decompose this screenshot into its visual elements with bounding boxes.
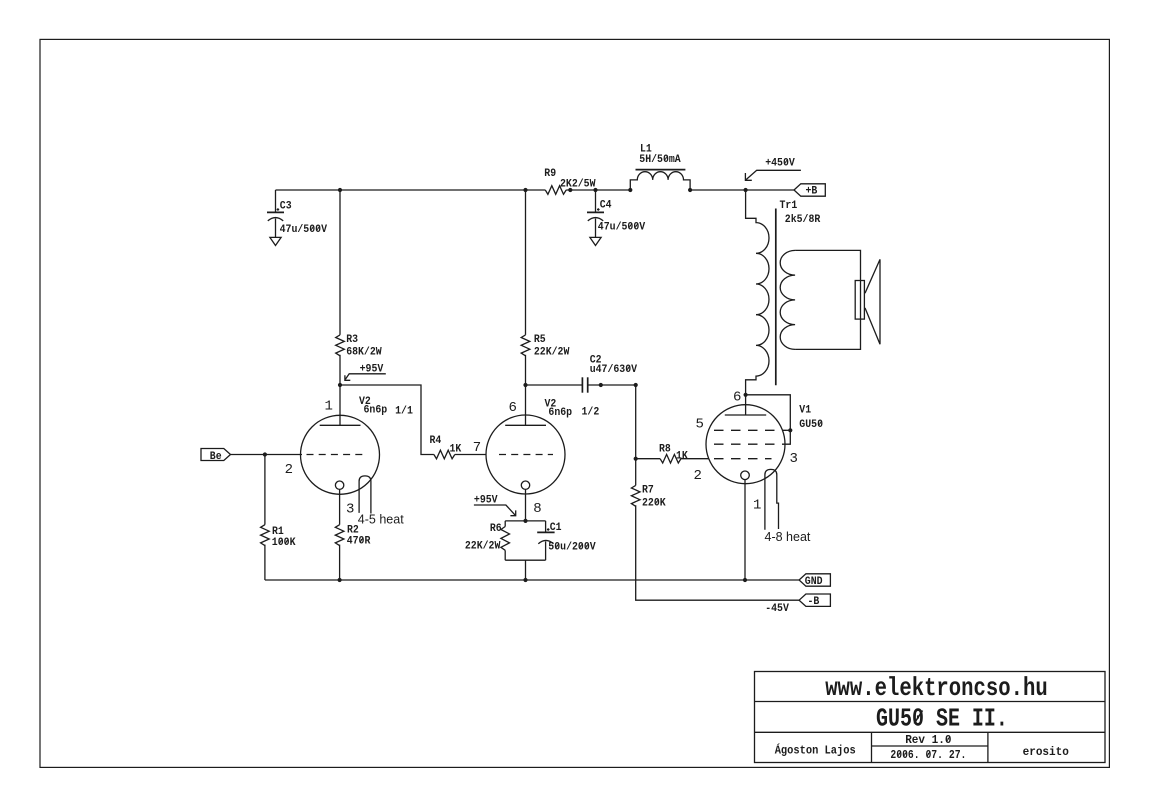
svg-text:V1: V1 xyxy=(799,405,811,417)
svg-text:R5: R5 xyxy=(534,334,546,346)
node Be/R1 xyxy=(263,452,267,456)
resistor R9 xyxy=(545,186,566,195)
svg-text:1: 1 xyxy=(753,498,761,514)
svg-text:Rev 1.0: Rev 1.0 xyxy=(905,733,951,747)
svg-text:R6: R6 xyxy=(490,523,502,535)
V2a anode lead xyxy=(339,385,341,425)
svg-text:50u/200V: 50u/200V xyxy=(548,542,596,554)
svg-text:R3: R3 xyxy=(346,334,358,346)
node L1 left xyxy=(628,188,632,192)
node pin8 / R6C1 top xyxy=(523,519,527,523)
tube V2a triode 6n6p 1/1 xyxy=(301,415,380,494)
wire R8 to V1 grid xyxy=(681,458,709,460)
wire ground rail xyxy=(265,579,799,581)
svg-text:2: 2 xyxy=(694,468,702,484)
svg-text:7: 7 xyxy=(473,440,481,456)
wire down to R8 node xyxy=(635,385,637,485)
node C2 output xyxy=(599,383,603,387)
V2b cathode lead xyxy=(525,489,527,521)
svg-text:GND: GND xyxy=(805,576,823,588)
svg-text:22K/2W: 22K/2W xyxy=(465,540,501,552)
node L1 right xyxy=(688,188,692,192)
resistor R8 xyxy=(660,454,681,463)
wire R6C1 to ground rail xyxy=(525,560,527,580)
resistor R7 xyxy=(631,485,640,506)
svg-text:1K: 1K xyxy=(450,444,462,456)
port Be xyxy=(201,449,231,461)
V1 plate xyxy=(725,414,766,416)
svg-text:2: 2 xyxy=(285,462,293,478)
wire C2 to R7/R8 branch xyxy=(588,384,636,386)
title block frame xyxy=(755,672,1106,763)
wire R8 node to zigzag xyxy=(636,458,660,460)
svg-text:C4: C4 xyxy=(600,199,612,211)
wire L1 to +B node xyxy=(690,189,794,191)
node R6C1/GND xyxy=(523,578,527,582)
svg-text:470R: 470R xyxy=(347,536,371,548)
node V1 cathode/GND xyxy=(743,578,747,582)
svg-text:GU50 SE II.: GU50 SE II. xyxy=(876,704,1008,734)
V1 cathode lead xyxy=(744,480,746,580)
V1 cathode xyxy=(741,471,750,480)
resistor R5 xyxy=(521,335,530,356)
svg-text:R7: R7 xyxy=(642,484,654,496)
node C4 tap xyxy=(593,188,597,192)
node R8 tap xyxy=(634,457,638,461)
node g2 tap xyxy=(788,428,792,432)
wire R2 to ground rail xyxy=(339,545,341,580)
svg-text:+450V: +450V xyxy=(765,157,795,169)
svg-text:68K/2W: 68K/2W xyxy=(346,347,382,359)
wire R1 to ground rail xyxy=(264,545,266,580)
svg-text:-45V: -45V xyxy=(765,603,789,615)
wire Be to grid xyxy=(231,454,303,456)
port -B xyxy=(799,594,830,606)
svg-text:6n6p: 6n6p xyxy=(548,407,572,419)
svg-text:22K/2W: 22K/2W xyxy=(534,347,570,359)
svg-text:R4: R4 xyxy=(430,435,442,447)
node corner C2/R7 xyxy=(634,383,638,387)
V1 anode lead xyxy=(745,395,747,415)
svg-text:C1: C1 xyxy=(550,522,562,534)
wire anode node to R4 corner xyxy=(340,385,434,455)
svg-text:6n6p: 6n6p xyxy=(364,404,388,416)
svg-text:3: 3 xyxy=(790,451,798,467)
V2a cathode xyxy=(335,481,343,489)
svg-text:5H/50mA: 5H/50mA xyxy=(639,154,681,166)
resistor R2 xyxy=(335,525,344,546)
svg-text:4-5 heat: 4-5 heat xyxy=(358,513,404,527)
svg-text:+B: +B xyxy=(806,186,818,198)
capacitor C1 xyxy=(545,521,547,532)
wire R3 to plate node xyxy=(339,355,341,385)
svg-text:47u/500V: 47u/500V xyxy=(280,224,328,236)
V2a heater 4-5 xyxy=(359,476,371,514)
wire R5 to anode node xyxy=(525,355,527,385)
node V2b anode rail tap xyxy=(523,188,527,192)
capacitor C3 xyxy=(275,190,277,212)
wire R4 to V2b grid xyxy=(455,454,486,456)
resistor R1 xyxy=(261,525,270,546)
svg-text:C3: C3 xyxy=(280,200,292,212)
wire g2 stub xyxy=(786,429,790,431)
node V2a anode xyxy=(338,383,342,387)
svg-text:Ágoston Lajos: Ágoston Lajos xyxy=(775,743,856,758)
svg-text:4-8 heat: 4-8 heat xyxy=(765,530,811,544)
svg-text:erosito: erosito xyxy=(1023,745,1069,759)
wire rail to R3 xyxy=(339,190,341,335)
svg-text:220K: 220K xyxy=(642,497,666,509)
tube V2b triode 6n6p 1/2 xyxy=(486,415,565,494)
wire top HT rail left xyxy=(276,189,546,191)
capacitor C2 xyxy=(581,377,583,392)
V2a grid (dashed) xyxy=(307,454,368,456)
transformer Tr1 core xyxy=(775,209,777,386)
wire R7 to -B line xyxy=(636,505,799,600)
ground C3 xyxy=(270,237,281,245)
port GND xyxy=(799,574,830,586)
resistor R3 xyxy=(336,335,345,356)
node V2b anode xyxy=(523,383,527,387)
transformer Tr1 secondary xyxy=(780,250,795,349)
V1 control grid g1 (dashed) xyxy=(714,458,772,460)
V1 suppressor g3 (dashed) xyxy=(714,443,786,445)
node R2/GND xyxy=(338,578,342,582)
node +B junction xyxy=(744,188,748,192)
node R9 output xyxy=(568,188,572,192)
svg-text:5: 5 xyxy=(696,416,704,432)
wire top rail R9 to L1 xyxy=(566,189,630,191)
V1 heater 4-8 xyxy=(765,469,779,529)
svg-text:R8: R8 xyxy=(659,444,671,456)
V2b anode lead xyxy=(525,385,527,425)
ground C4 xyxy=(590,237,601,245)
svg-text:R1: R1 xyxy=(272,526,284,538)
svg-text:47u/500V: 47u/500V xyxy=(598,221,646,233)
V2b cathode xyxy=(521,481,529,489)
wire V2b anode node to C2 xyxy=(526,384,583,386)
resistor R4 xyxy=(434,450,455,459)
svg-text:-B: -B xyxy=(808,596,820,608)
node 6 Tr1/V1 anode xyxy=(744,393,748,397)
transformer Tr1 primary xyxy=(746,190,769,395)
resistor R6 xyxy=(504,521,506,527)
svg-text:6: 6 xyxy=(733,389,741,405)
V2b grid (dashed) xyxy=(499,454,553,456)
svg-text:1K: 1K xyxy=(676,450,688,462)
svg-text:100K: 100K xyxy=(272,537,296,549)
V2b plate xyxy=(505,424,546,426)
svg-text:3: 3 xyxy=(346,502,354,518)
svg-text:www.elektroncso.hu: www.elektroncso.hu xyxy=(825,673,1047,703)
node V2a anode rail tap xyxy=(338,188,342,192)
svg-text:Be: Be xyxy=(210,451,222,463)
svg-text:2k5/8R: 2k5/8R xyxy=(785,214,821,226)
svg-text:1/2: 1/2 xyxy=(582,407,600,419)
speaker LS xyxy=(855,281,864,320)
wire secondary loop xyxy=(795,250,860,349)
wire R6C1 bottom bar xyxy=(505,559,545,561)
wire R6C1 top bar xyxy=(505,520,545,522)
wire node to R1 xyxy=(264,455,266,525)
wire rail to R5 xyxy=(525,190,527,335)
V2a cathode lead xyxy=(339,489,341,524)
inductor L1 xyxy=(630,172,690,190)
svg-text:1: 1 xyxy=(325,399,333,415)
capacitor C4 xyxy=(595,190,597,212)
V1 screen grid g2 (dashed) xyxy=(714,429,786,431)
slashed zero in GU50 xyxy=(914,711,922,724)
svg-text:u47/630V: u47/630V xyxy=(590,364,638,376)
V2a plate xyxy=(320,424,361,426)
svg-text:2K2/5W: 2K2/5W xyxy=(560,178,596,190)
svg-text:R9: R9 xyxy=(544,168,556,180)
port +B xyxy=(794,184,825,196)
svg-text:Tr1: Tr1 xyxy=(780,200,798,212)
svg-text:8: 8 xyxy=(533,501,541,517)
wire node6 to g2/g3 riser xyxy=(746,395,791,444)
svg-text:1/1: 1/1 xyxy=(395,405,413,417)
tube V1 pentode GU50 xyxy=(706,405,785,484)
svg-text:6: 6 xyxy=(509,400,517,416)
